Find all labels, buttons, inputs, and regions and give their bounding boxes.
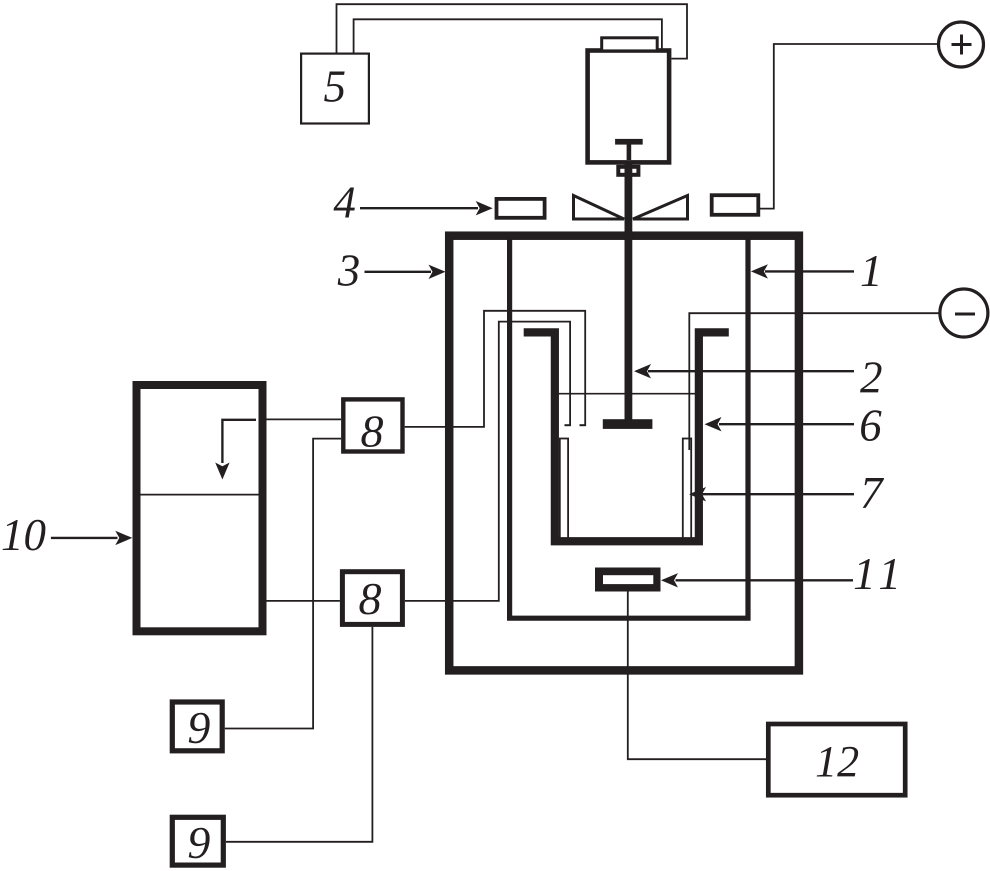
- motor housing: [588, 51, 670, 163]
- wire heater 11 to box 12: [628, 592, 766, 760]
- box 9 upper: [172, 702, 222, 751]
- wire lower box 8 to lower box 9: [226, 627, 373, 842]
- wire cathode - to crucible: [689, 313, 940, 450]
- svg-text:2: 2: [860, 353, 883, 403]
- wire from box 5 to motor top (inner): [354, 19, 662, 53]
- cathode terminal -: [940, 289, 988, 337]
- liner 7 right wall: [683, 439, 691, 539]
- box 12: [768, 724, 905, 795]
- bowtie funnel left triangle: [574, 196, 625, 220]
- box 9 lower: [172, 817, 223, 865]
- svg-text:11: 11: [853, 549, 907, 599]
- box 8 upper: [343, 399, 402, 451]
- wire thermocouple loop lower 8: [405, 322, 570, 601]
- svg-text:7: 7: [860, 468, 885, 518]
- svg-text:12: 12: [815, 737, 859, 786]
- box 10 divider: [141, 494, 259, 496]
- wire from box 5 to motor housing (outer): [337, 4, 688, 58]
- svg-text:9: 9: [187, 702, 210, 753]
- thermocouple tip tick upper: [580, 424, 586, 426]
- stirrer shaft 2: [625, 160, 633, 424]
- lid seal left 4: [497, 199, 545, 218]
- anode terminal +: [939, 22, 984, 67]
- svg-text:8: 8: [359, 573, 382, 624]
- svg-text:1: 1: [860, 246, 883, 296]
- svg-text:8: 8: [361, 406, 384, 457]
- box 8 lower: [342, 572, 402, 625]
- liner 7 left wall: [560, 439, 568, 539]
- wire box 10 to lower box 8: [267, 600, 340, 602]
- box 5: [301, 54, 369, 124]
- svg-text:3: 3: [337, 246, 361, 296]
- svg-text:5: 5: [324, 62, 347, 112]
- thermocouple tip tick lower: [565, 424, 571, 426]
- svg-text:6: 6: [859, 401, 882, 451]
- vessel inner wall 1: [510, 239, 748, 618]
- melt level line: [559, 393, 695, 395]
- bowtie funnel right triangle: [633, 196, 688, 220]
- wire anode + to right seal: [758, 44, 938, 209]
- motor inner T bar: [615, 139, 643, 145]
- stirrer paddle: [603, 419, 653, 429]
- crucible 6: [524, 332, 729, 541]
- svg-text:10: 10: [1, 510, 46, 560]
- heater 11 slot: [603, 575, 653, 584]
- shaft coupling: [618, 167, 638, 175]
- svg-text:9: 9: [187, 817, 210, 868]
- heater 11 body: [595, 568, 661, 592]
- wire box 10 to upper box 8: [267, 418, 342, 420]
- motor inner T stem: [627, 144, 632, 160]
- vessel outer wall 3: [449, 236, 799, 671]
- motor cap: [602, 38, 658, 51]
- svg-text:4: 4: [333, 177, 356, 227]
- wire upper box 8 to upper box 9: [225, 439, 341, 729]
- lid seal right: [712, 195, 759, 215]
- box 10: [137, 385, 263, 631]
- box 10 internal arrow: [222, 420, 256, 463]
- wire thermocouple loop upper 8: [405, 311, 586, 427]
